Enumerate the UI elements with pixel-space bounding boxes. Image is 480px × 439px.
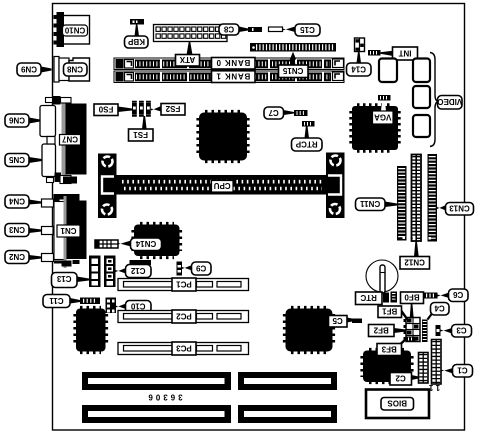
ATX power connector [154,25,228,42]
keyboard power component [130,19,144,25]
label CN13 [437,203,474,216]
label C12 [116,265,152,278]
svg-text:CN2: CN2 [8,252,25,261]
label RTC [356,292,383,305]
svg-text:C4: C4 [434,304,445,313]
ISA slot row2 right [238,405,337,423]
svg-text:C7: C7 [268,108,279,117]
svg-text:FS2: FS2 [165,104,180,113]
serial port CN6 [40,106,56,137]
svg-text:BF2: BF2 [373,326,389,335]
svg-text:CN3: CN3 [8,225,25,234]
label BF3 [377,339,407,356]
label CN11 [356,198,398,211]
label FS0 [94,104,132,116]
label CPU [212,181,234,193]
resistor component near C15 [269,27,283,32]
jumper near C9 [177,262,183,276]
ISA slot row2 left [82,405,231,423]
component near C6 [424,293,438,299]
label C14 [347,52,372,77]
svg-text:CN11: CN11 [360,199,381,208]
label KBP [125,25,149,49]
chip at video section bottom [413,115,430,137]
component near BF3 [407,337,416,342]
component near RTCP [302,121,315,127]
svg-text:C9: C9 [196,264,207,273]
CPU slot bar [117,175,327,195]
label C5 [329,316,353,328]
connector CN11 column [397,166,407,241]
jumper grid near C10 [106,298,117,314]
ISA slot row1 right [238,372,337,390]
component near VGA [378,95,391,101]
label C6 [438,289,469,302]
header column CN near C1 [432,340,442,385]
label C11 [43,295,80,308]
svg-text:CPU: CPU [214,181,231,190]
PCI slot PC1 [118,278,249,291]
label CN2 [5,251,54,264]
label CN12 [400,241,430,269]
label BANK 0 [212,58,256,70]
connector CN4 [42,195,68,207]
resistor pack near C11 [80,298,100,305]
connector CN7 block [46,96,87,184]
chip beside CN14 [133,223,181,257]
label CN9 [17,63,52,76]
component right of C5 [352,319,362,324]
svg-text:BANK 1: BANK 1 [216,72,251,81]
connector CN1 block [54,194,87,268]
header column left of C1 [419,353,429,384]
component near INT [368,50,381,56]
svg-text:C13: C13 [56,274,71,283]
header CN14 [95,240,118,248]
label CN10 [63,25,88,36]
label C9 [182,262,211,275]
svg-text:FS1: FS1 [133,130,148,139]
svg-text:PC3: PC3 [176,344,192,353]
PCI slot PC3 [118,342,249,355]
chip near C2 [362,349,412,382]
label CN4 [5,195,42,208]
label CN6 [5,114,40,127]
label BF0 [401,292,424,317]
striped column beside BF block [422,320,428,343]
CPU slot left bracket [98,154,117,219]
svg-text:ATX: ATX [179,55,195,64]
svg-text:CN4: CN4 [8,197,25,206]
svg-text:BF3: BF3 [381,345,397,354]
svg-text:C15: C15 [300,25,315,34]
svg-text:PC1: PC1 [176,280,192,289]
label VIDEO [437,96,462,110]
label ATX [176,42,200,66]
component below CN14 [130,260,152,265]
SIMM socket BANK0 row [114,58,344,70]
svg-text:KBP: KBP [127,37,145,46]
label C15 [283,24,321,36]
label CN8 [64,63,88,76]
svg-text:CN6: CN6 [8,116,25,125]
battery RTC [366,260,398,293]
VGA chip [351,105,399,151]
jumper C14 block [355,38,365,52]
svg-text:BF1: BF1 [382,307,398,316]
label BF2 [369,325,407,337]
svg-text:CN5: CN5 [8,155,25,164]
svg-text:CN14: CN14 [135,239,156,248]
SIMM socket BANK1 row [114,71,344,83]
chipset U1 [198,111,248,161]
connector CN13 column [428,154,438,242]
svg-text:C5: C5 [332,316,343,325]
svg-text:CN13: CN13 [449,204,470,213]
chip below C11 [75,307,107,352]
label C13 [52,273,90,288]
svg-text:C12: C12 [130,266,145,275]
chip at video section middle [413,86,430,108]
jumper block BF [404,318,421,342]
svg-text:C11: C11 [49,296,64,305]
chip at video section top-right [413,59,430,83]
label CN1 [57,225,80,237]
label CN5 [5,154,42,167]
label CN15 [279,52,309,78]
svg-text:36306: 36306 [145,393,182,402]
svg-text:PC2: PC2 [176,312,192,321]
jumper column pair near C13 [89,256,116,288]
label CN3 [5,224,53,237]
svg-text:BF0: BF0 [404,293,420,302]
svg-text:RTC: RTC [360,293,377,302]
svg-text:CN9: CN9 [20,65,37,74]
capacitor component near C8 [248,27,262,32]
svg-text:VGA: VGA [374,113,392,122]
svg-text:C6: C6 [453,290,464,299]
svg-text:INT: INT [398,49,411,58]
svg-text:BIOS: BIOS [387,399,407,408]
label BF1 [378,306,408,320]
label CN7 [60,135,81,146]
label RTCP [292,126,323,151]
svg-text:C1: C1 [457,366,468,375]
svg-text:BANK 0: BANK 0 [216,58,251,67]
label FS1 [129,116,154,141]
PCI slot PC2 [118,310,249,323]
svg-text:CN8: CN8 [66,65,83,74]
label C7 [264,107,294,119]
svg-text:C8: C8 [223,25,234,34]
svg-text:C2: C2 [395,374,406,383]
svg-text:CN10: CN10 [64,26,85,35]
components beside RTC [383,292,397,303]
label FS2 [151,104,185,116]
label BANK 1 [212,71,256,83]
serial port CN5 [42,137,56,177]
ISA slot row1 left [82,372,231,390]
chip at video section top-left [379,59,397,83]
video brace [430,53,439,147]
chip near C5 [284,307,333,352]
connector CN8 [54,57,90,83]
jumper block FS [132,102,151,116]
svg-text:CN1: CN1 [60,226,77,235]
label C4 [428,303,450,320]
connector CN15 floppy header [250,43,336,52]
label CN14 [118,238,162,251]
capacitor component near C7 [294,110,308,116]
svg-text:CN7: CN7 [61,135,78,144]
svg-text:RTCP: RTCP [295,140,317,149]
BIOS chip [366,390,429,419]
label C3 [441,325,472,338]
svg-text:CN15: CN15 [282,66,303,75]
label C2 [390,373,419,386]
svg-text:CN12: CN12 [404,258,425,267]
label C1 [441,365,473,378]
label C8 [219,24,248,35]
label VGA [373,101,394,125]
component near C3 [436,325,441,336]
svg-text:C14: C14 [351,65,366,74]
svg-text:VIDEO: VIDEO [437,97,462,106]
CPU slot right bracket [326,153,345,219]
connector CN12 column [412,155,422,242]
label C10 [116,301,152,314]
label INT [381,47,418,60]
svg-text:FS0: FS0 [98,105,113,114]
svg-text:C10: C10 [130,302,145,311]
connector CN10 keyboard [54,12,90,47]
svg-text:C3: C3 [456,326,467,335]
